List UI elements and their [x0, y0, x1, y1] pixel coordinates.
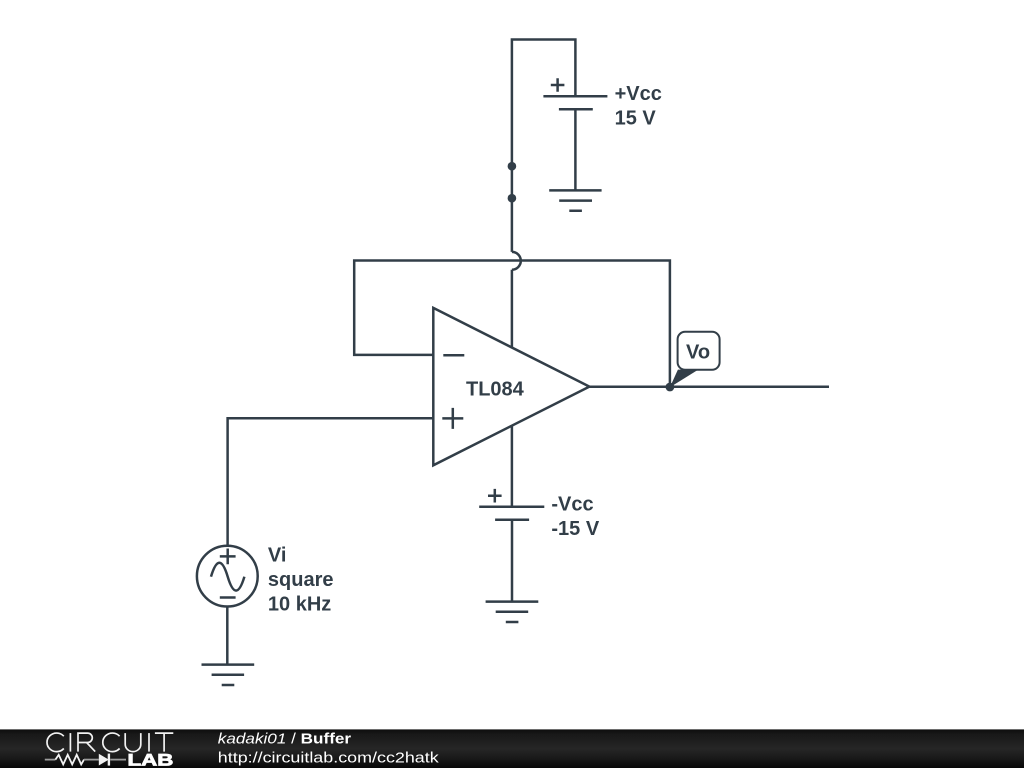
- svg-text:-15 V: -15 V: [551, 518, 599, 540]
- node Vo flag pointer: [670, 370, 698, 388]
- wire output from op-amp: [589, 386, 829, 389]
- CircuitLab logo diode triangle: [99, 754, 109, 766]
- svg-text:Vo: Vo: [686, 342, 710, 364]
- wire battery V2 to ground: [574, 109, 577, 190]
- voltage source V1 sine symbol: [211, 563, 244, 591]
- svg-text:LAB: LAB: [128, 752, 174, 768]
- wire from Vi to non-inverting input: [228, 418, 434, 546]
- op-amp U1 minus input symbol: [443, 354, 464, 357]
- battery V3 -Vcc short plate: [495, 518, 529, 521]
- svg-text:kadaki01 / Buffer: kadaki01 / Buffer: [218, 731, 351, 748]
- svg-text:square: square: [268, 569, 334, 591]
- voltage source V1 minus sign: [220, 596, 236, 599]
- ground below Vi: [202, 665, 255, 685]
- battery V3 -Vcc long plate: [479, 506, 544, 509]
- feedback wire loop from output to inverting input: [354, 261, 670, 388]
- svg-text:-Vcc: -Vcc: [551, 494, 593, 516]
- battery V3 -Vcc plus sign: [488, 489, 502, 503]
- svg-text:Vi: Vi: [268, 545, 287, 567]
- svg-text:TL084: TL084: [466, 379, 525, 401]
- voltage source V1 plus sign: [220, 549, 236, 565]
- voltage source V1 Vi circle: [197, 546, 258, 607]
- wire Vi to ground: [226, 607, 229, 665]
- wire from node A to +Vcc battery top: [512, 40, 576, 252]
- svg-text:http://circuitlab.com/cc2hatk: http://circuitlab.com/cc2hatk: [218, 749, 439, 766]
- junction dot at output node: [666, 383, 675, 392]
- battery V2 +Vcc long plate: [543, 95, 607, 98]
- junction dot upper on +Vcc net: [508, 162, 517, 171]
- op-amp U1 plus input symbol: [442, 408, 463, 429]
- battery V2 +Vcc plus sign: [551, 78, 565, 92]
- footer bar: [0, 729, 1024, 768]
- junction dot lower on +Vcc net: [508, 194, 517, 203]
- ground below +Vcc battery: [549, 190, 601, 210]
- wire battery V3 to ground: [511, 520, 514, 602]
- CircuitLab logo CIRCUIT letters: [47, 733, 173, 752]
- op-amp U1 TL084 triangle: [433, 308, 589, 465]
- battery V2 +Vcc short plate: [559, 108, 593, 111]
- svg-text:15 V: 15 V: [615, 108, 657, 130]
- wire op-amp V+ pin: [511, 270, 514, 348]
- svg-text:+Vcc: +Vcc: [615, 83, 662, 105]
- wire hop over feedback wire: [512, 252, 521, 270]
- svg-text:10 kHz: 10 kHz: [268, 594, 331, 616]
- ground below -Vcc battery: [486, 602, 539, 622]
- wire op-amp V- pin: [511, 426, 514, 507]
- CircuitLab logo resistor and diode: [45, 754, 126, 766]
- node Vo flag box: [678, 332, 720, 370]
